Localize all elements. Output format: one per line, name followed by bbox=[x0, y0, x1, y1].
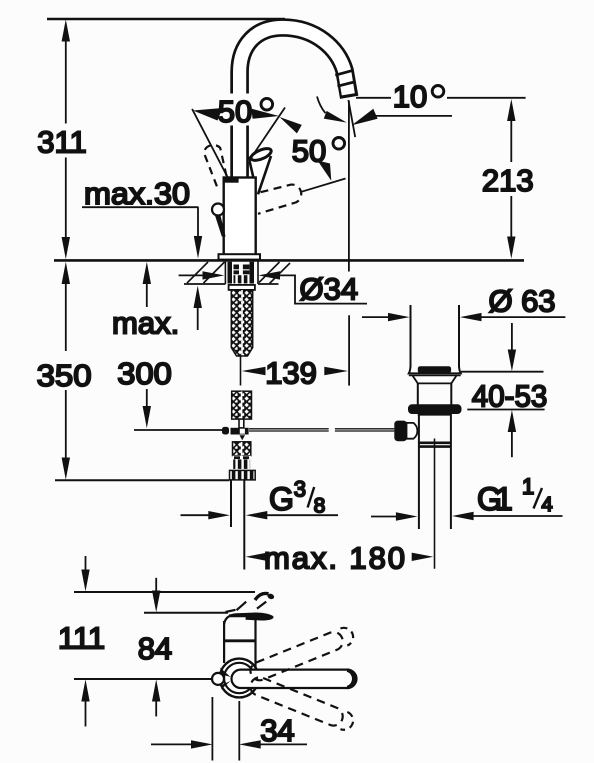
svg-text:34: 34 bbox=[260, 713, 294, 748]
svg-text:139: 139 bbox=[265, 355, 317, 390]
dimension G1 1/4 bbox=[371, 516, 397, 518]
deck section hatches bbox=[204, 262, 225, 283]
svg-text:Ø34: Ø34 bbox=[300, 272, 359, 307]
tail collar bbox=[230, 470, 256, 480]
lever bar solid bbox=[232, 670, 357, 688]
dimension 350 bbox=[62, 262, 70, 480]
countertop top line bbox=[54, 259, 524, 262]
flange bbox=[408, 404, 462, 414]
dashed lever bar up bbox=[248, 629, 346, 683]
svg-text:Ø 63: Ø 63 bbox=[489, 283, 556, 318]
flare + ledge bbox=[409, 366, 461, 373]
40-53 reference lines bbox=[461, 371, 544, 373]
joint ring bbox=[220, 659, 259, 698]
10 deg right leader with arrow bbox=[374, 115, 452, 117]
10 deg arc arrow (left) bbox=[317, 97, 326, 114]
wedge below fitting bbox=[240, 435, 246, 440]
dashed lever horizontal-right position bbox=[258, 185, 301, 214]
dimension 111 bbox=[85, 556, 87, 571]
dimension G3/8 bbox=[181, 514, 210, 516]
dimension 34 bbox=[211, 697, 213, 761]
svg-text:50: 50 bbox=[292, 133, 326, 168]
side knob bbox=[394, 421, 407, 442]
40-53 arrows bbox=[511, 323, 513, 350]
spout axis line tilted 10 deg bbox=[348, 100, 355, 137]
svg-text:311: 311 bbox=[37, 125, 86, 160]
vertical line from spout tip down to 139 tick bbox=[348, 101, 350, 272]
dimension max.300 bbox=[143, 262, 151, 429]
top reference line at spout height bbox=[47, 18, 285, 20]
bowtie arrowheads on lever axis bbox=[251, 109, 279, 119]
svg-text:40-53: 40-53 bbox=[472, 379, 548, 414]
svg-text:max. 180: max. 180 bbox=[264, 540, 405, 575]
213 top reference line bbox=[356, 97, 391, 99]
svg-text:8: 8 bbox=[314, 495, 326, 518]
dashed lever bar down bbox=[248, 675, 346, 729]
upper hose hatched block bbox=[232, 391, 252, 419]
small side circle bbox=[212, 673, 224, 685]
svg-text:300: 300 bbox=[117, 356, 172, 391]
50deg #2 lower angle line (horizontal lever axis) bbox=[300, 179, 346, 193]
drain center line bbox=[434, 439, 436, 569]
350 bottom reference line bbox=[55, 479, 229, 481]
shank section in deck bbox=[228, 262, 255, 284]
body below flange bbox=[418, 414, 452, 416]
dashed cap rotated up bbox=[226, 602, 267, 612]
O34 leader arrows bbox=[179, 274, 204, 276]
111 top reference line bbox=[74, 591, 255, 593]
svg-text:111: 111 bbox=[58, 620, 105, 655]
faucet center line bbox=[240, 357, 242, 386]
joint band bbox=[419, 441, 451, 444]
white gap for 50deg label over riser bbox=[214, 94, 275, 126]
84 top reference line bbox=[144, 612, 228, 614]
base flange bbox=[219, 254, 261, 259]
solid lever up-right position bbox=[248, 146, 273, 194]
pop-up rod bbox=[134, 429, 223, 431]
pop-up rod fitting bbox=[222, 427, 229, 435]
aerator band lines bbox=[335, 70, 353, 75]
50deg #1 left angle line (dashed lever axis) bbox=[192, 109, 228, 179]
countertop bottom lines bbox=[184, 283, 225, 285]
plug cap bbox=[418, 366, 451, 373]
svg-text:350: 350 bbox=[37, 358, 92, 393]
50deg solid lever axis line bbox=[247, 108, 285, 164]
svg-text:1: 1 bbox=[495, 481, 513, 517]
dimension 213 vertical bbox=[507, 99, 515, 259]
threaded shank collar below deck bbox=[229, 285, 255, 290]
svg-text:max.: max. bbox=[112, 305, 179, 340]
svg-text:4: 4 bbox=[542, 494, 553, 516]
lever axis reference line bbox=[74, 678, 212, 680]
svg-text:213: 213 bbox=[482, 163, 534, 198]
hole edge verticals bbox=[224, 262, 226, 285]
svg-text:G: G bbox=[269, 481, 294, 517]
threaded rod bbox=[231, 290, 252, 356]
spout gooseneck bbox=[240, 28, 356, 180]
svg-text:3: 3 bbox=[294, 477, 306, 502]
drain pop-up assembly bbox=[362, 283, 565, 529]
dimension max.180 bbox=[246, 553, 268, 561]
dimension 139 bbox=[242, 367, 266, 375]
dimension 311 vertical line bbox=[62, 19, 70, 259]
tailpiece tube bbox=[230, 480, 232, 527]
stem bbox=[239, 419, 244, 428]
dimension 84 bbox=[155, 578, 157, 591]
faucet body bbox=[224, 178, 256, 256]
small lever knob on body left bbox=[212, 204, 224, 216]
svg-text:84: 84 bbox=[138, 631, 172, 666]
dimension O63 bbox=[362, 316, 389, 318]
svg-text:50: 50 bbox=[218, 94, 252, 129]
svg-text:max.30: max.30 bbox=[84, 176, 190, 211]
svg-text:10: 10 bbox=[393, 79, 427, 114]
lower hose hatched block bbox=[233, 442, 251, 456]
front view faucet body bbox=[224, 612, 274, 669]
dashed lever up-left position bbox=[204, 145, 228, 186]
svg-text:1: 1 bbox=[522, 474, 534, 499]
